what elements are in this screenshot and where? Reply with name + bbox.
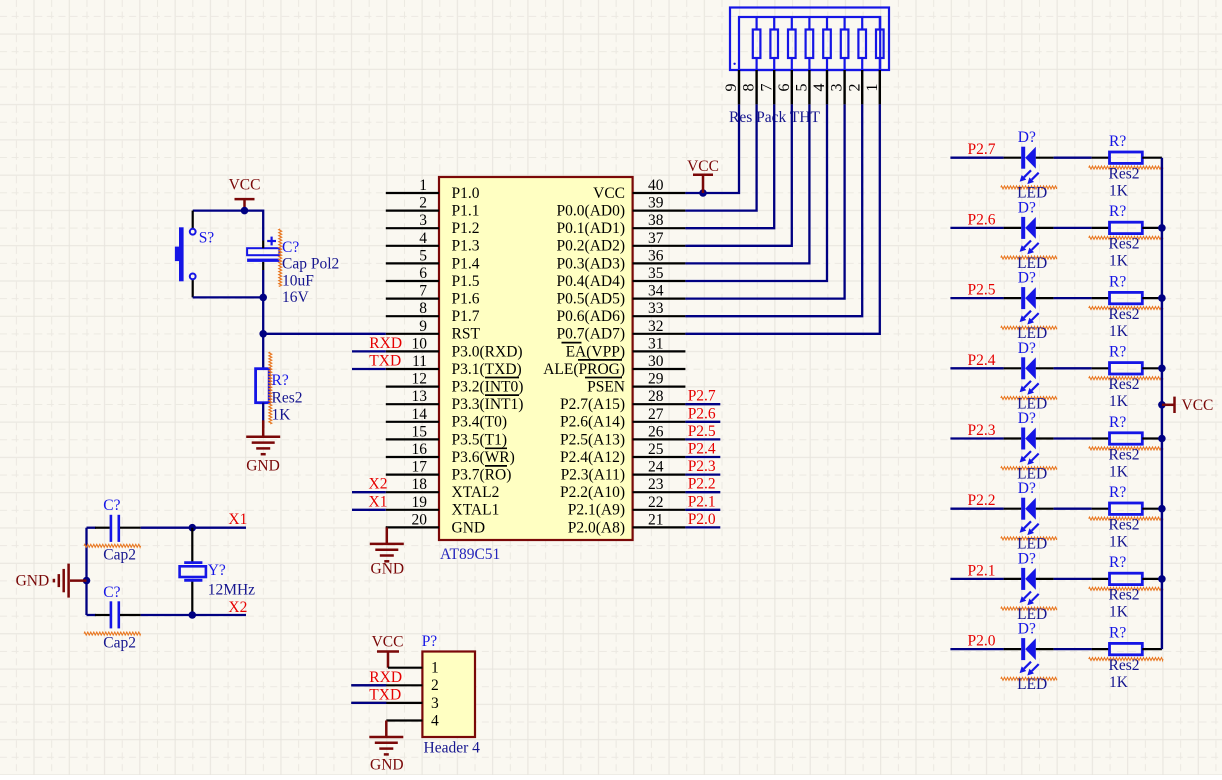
svg-text:C?: C?	[282, 239, 299, 256]
capacitor C3 right lead	[120, 614, 141, 616]
ERC marker zigzag under LED (row 1)	[1001, 186, 1057, 189]
svg-text:P2.4: P2.4	[688, 441, 716, 458]
resistor left lead (row 1)	[1092, 157, 1110, 159]
LED D2 left lead	[1004, 227, 1022, 229]
pin 31 lead (right)	[633, 350, 686, 352]
svg-text:4: 4	[419, 230, 427, 247]
LED D3 right lead	[1036, 297, 1054, 299]
LED D7 left lead	[1004, 578, 1022, 580]
pin 38 lead (right)	[633, 227, 686, 229]
svg-text:Cap2: Cap2	[103, 634, 136, 651]
svg-text:P3.6(WR): P3.6(WR)	[452, 449, 515, 466]
overline for EA (pin 31)	[562, 342, 582, 344]
header P1 body (Header 4)	[422, 652, 475, 738]
svg-text:R?: R?	[1109, 344, 1126, 361]
svg-text:P2.6: P2.6	[688, 405, 716, 422]
pin 19 lead (left)	[386, 509, 439, 511]
pin 36 lead (right)	[633, 262, 686, 264]
ERC marker zigzag under resistor (row 5)	[1089, 447, 1163, 450]
svg-text:P2.7: P2.7	[968, 141, 996, 158]
pin 6 lead (left)	[386, 280, 439, 282]
pin 1 lead (left)	[386, 192, 439, 194]
wire P2.7 net (IC)	[685, 403, 720, 405]
res pack pin 5 lead	[808, 70, 810, 104]
svg-text:10: 10	[412, 335, 428, 352]
svg-text:6: 6	[776, 84, 793, 92]
svg-text:P2.1: P2.1	[688, 493, 716, 510]
svg-text:38: 38	[648, 212, 664, 229]
ERC marker zigzag under resistor (row 7)	[1089, 587, 1163, 590]
svg-text:R?: R?	[1109, 203, 1126, 220]
LED D4 left lead	[1004, 367, 1022, 369]
svg-text:P0.4(AD4): P0.4(AD4)	[557, 273, 625, 290]
wire capacitor to bottom junction	[262, 270, 264, 297]
pin 9 lead (left)	[386, 333, 439, 335]
pin 28 lead (right)	[633, 403, 686, 405]
pin 29 lead (right)	[633, 386, 686, 388]
svg-text:Y?: Y?	[208, 562, 226, 579]
svg-text:2: 2	[419, 195, 427, 212]
wire header pin 4 to ground	[386, 719, 422, 721]
svg-text:28: 28	[648, 388, 664, 405]
svg-text:39: 39	[648, 195, 664, 212]
wire P2.2 to LED D6	[950, 508, 1003, 510]
overline for PROG (pin 30)	[578, 359, 622, 361]
pin 14 lead (left)	[386, 421, 439, 423]
junction bus row 4	[1158, 365, 1166, 373]
res pack pin number 1	[864, 84, 881, 92]
svg-text:P2.7(A15): P2.7(A15)	[560, 396, 625, 413]
res pack pin 6 lead	[791, 70, 793, 104]
resistor right lead to bus (row 4)	[1142, 367, 1162, 369]
pin 27 lead (right)	[633, 421, 686, 423]
svg-text:1K: 1K	[272, 407, 292, 424]
resistor R (Res2 1K) row 8	[1110, 643, 1143, 654]
svg-text:Res2: Res2	[272, 390, 303, 407]
resistor left lead (row 6)	[1092, 508, 1110, 510]
svg-text:12MHz: 12MHz	[208, 581, 255, 598]
svg-text:40: 40	[648, 177, 664, 194]
ERC marker zigzag under LED (row 6)	[1001, 537, 1057, 540]
svg-text:X1: X1	[369, 493, 388, 510]
svg-text:P1.3: P1.3	[452, 238, 480, 255]
svg-text:P1.4: P1.4	[452, 255, 480, 272]
wire LED to resistor (row 4)	[1054, 367, 1092, 369]
svg-text:35: 35	[648, 265, 664, 282]
pin 39 lead (right)	[633, 210, 686, 212]
overline for INT0 (pin 12)	[485, 377, 519, 379]
svg-text:25: 25	[648, 441, 664, 458]
svg-text:P0.2(AD2): P0.2(AD2)	[557, 238, 625, 255]
LED D5 right lead	[1036, 437, 1054, 439]
resistor pack element 1	[876, 30, 884, 59]
pin 15 lead (left)	[386, 438, 439, 440]
resistor pack element 4	[823, 30, 831, 59]
ground symbol (reset)	[262, 420, 265, 437]
wire IC pin 38 to res pack pin 7	[685, 104, 774, 228]
svg-text:P3.0(RXD): P3.0(RXD)	[452, 343, 523, 360]
wire resistor R1 to ground	[262, 403, 264, 428]
resistor R (Res2 1K) row 3	[1110, 292, 1143, 303]
svg-text:17: 17	[412, 459, 428, 476]
wire P2.5 to LED D3	[950, 297, 1003, 299]
pin 21 lead (right)	[633, 526, 686, 528]
crystal Y1 (12MHz) symbol	[184, 561, 202, 564]
LED D5 left lead	[1004, 437, 1022, 439]
svg-text:S?: S?	[199, 230, 215, 247]
pin 25 lead (right)	[633, 456, 686, 458]
ERC marker zigzag under LED (row 4)	[1001, 397, 1057, 400]
svg-text:D?: D?	[1018, 621, 1036, 638]
wire VCC to header pin 1	[387, 652, 390, 668]
ground symbol (crystal, pointing left)	[70, 579, 87, 582]
svg-text:R?: R?	[1109, 554, 1126, 571]
res pack pin 4 lead	[826, 70, 828, 104]
svg-text:LED: LED	[1017, 676, 1047, 693]
svg-text:13: 13	[412, 388, 428, 405]
svg-text:1K: 1K	[1109, 323, 1129, 340]
svg-text:23: 23	[648, 476, 664, 493]
svg-text:33: 33	[648, 300, 664, 317]
LED D8 symbol	[1021, 638, 1025, 660]
wire RST node down to resistor R1	[262, 334, 264, 369]
svg-text:2: 2	[431, 677, 439, 694]
svg-text:P3.7(RO): P3.7(RO)	[452, 467, 512, 484]
svg-text:2: 2	[846, 84, 863, 92]
pin 18 lead (left)	[386, 491, 439, 493]
wire LED to resistor (row 3)	[1054, 297, 1092, 299]
resistor right lead to bus (row 7)	[1142, 578, 1162, 580]
svg-text:34: 34	[648, 283, 664, 300]
svg-text:RXD: RXD	[369, 669, 402, 686]
wire P2.1 net (IC)	[685, 509, 720, 511]
resistor pack element 5	[806, 30, 814, 59]
res pack pin number 4	[811, 84, 828, 92]
wire IC pin 37 to res pack pin 6	[685, 104, 791, 245]
ERC marker zigzag under resistor (row 1)	[1089, 166, 1163, 169]
svg-text:11: 11	[412, 353, 427, 370]
svg-text:29: 29	[648, 371, 664, 388]
resistor pack element 8	[753, 30, 761, 59]
junction node below switch	[259, 294, 267, 302]
wire bottom cap left lead region	[87, 614, 97, 616]
svg-text:GND: GND	[16, 573, 50, 590]
LED D6 symbol	[1021, 498, 1025, 520]
svg-text:9: 9	[419, 318, 427, 335]
junction bus row 7	[1158, 575, 1166, 583]
svg-text:1: 1	[864, 84, 881, 92]
svg-text:5: 5	[794, 84, 811, 92]
svg-text:1K: 1K	[1109, 393, 1129, 410]
wire LED to resistor (row 1)	[1054, 157, 1092, 159]
LED D4 symbol	[1021, 357, 1025, 379]
wire LED to resistor (row 5)	[1054, 437, 1092, 439]
resistor R (Res2 1K) row 1	[1110, 152, 1143, 163]
svg-text:D?: D?	[1018, 199, 1036, 216]
LED D1 symbol	[1021, 147, 1025, 169]
resistor right lead to bus (row 2)	[1142, 227, 1162, 229]
resistor pack element 3	[841, 30, 849, 59]
pin 37 lead (right)	[633, 245, 686, 247]
svg-text:4: 4	[431, 712, 439, 729]
svg-text:P2.0(A8): P2.0(A8)	[568, 519, 625, 536]
svg-text:P0.3(AD3): P0.3(AD3)	[557, 255, 625, 272]
wire switch bottom to junction	[193, 296, 264, 298]
ERC marker zigzag under resistor (row 4)	[1089, 377, 1163, 380]
pin 16 lead (left)	[386, 456, 439, 458]
LED D4 right lead	[1036, 367, 1054, 369]
svg-text:1K: 1K	[1109, 604, 1129, 621]
wire P2.0 to LED D8	[950, 648, 1003, 650]
res pack pin 7 lead	[773, 70, 775, 104]
svg-text:VCC: VCC	[593, 185, 625, 202]
resistor left lead (row 2)	[1092, 227, 1110, 229]
res pack pin number 9	[723, 84, 740, 92]
svg-text:P2.2(A10): P2.2(A10)	[560, 484, 625, 501]
svg-text:P0.0(AD0): P0.0(AD0)	[557, 203, 625, 220]
pin 3 lead (left)	[386, 227, 439, 229]
wire LED to resistor (row 7)	[1054, 578, 1092, 580]
svg-text:36: 36	[648, 247, 664, 264]
junction VCC tap on bus	[1158, 401, 1166, 409]
res pack pin number 7	[758, 84, 775, 92]
svg-text:Res2: Res2	[1109, 587, 1140, 604]
wire VCC rail to switch and capacitor (top)	[193, 211, 264, 241]
wire IC pin 34 to res pack pin 3	[685, 104, 844, 298]
svg-text:1K: 1K	[1109, 534, 1129, 551]
wire P2.6 to LED D2	[950, 227, 1003, 229]
pin 4 lead (left)	[386, 245, 439, 247]
svg-text:6: 6	[419, 265, 427, 282]
svg-text:P0.6(AD6): P0.6(AD6)	[557, 308, 625, 325]
svg-text:P3.2(INT0): P3.2(INT0)	[452, 379, 524, 396]
svg-text:19: 19	[412, 494, 428, 511]
LED D7 right lead	[1036, 578, 1054, 580]
ground symbol (header)	[385, 721, 388, 738]
wire C3 to X2 node	[141, 614, 246, 616]
svg-text:P2.2: P2.2	[968, 492, 996, 509]
svg-text:GND: GND	[371, 561, 405, 578]
wire P2.6 net (IC)	[685, 421, 720, 423]
res pack pin 2 lead	[861, 70, 863, 104]
svg-text:Res2: Res2	[1109, 517, 1140, 534]
svg-text:30: 30	[648, 353, 664, 370]
resistor right lead to bus (row 6)	[1142, 508, 1162, 510]
svg-text:X1: X1	[228, 511, 247, 528]
svg-text:XTAL2: XTAL2	[452, 484, 500, 501]
svg-text:3: 3	[829, 84, 846, 92]
svg-text:R?: R?	[1109, 484, 1126, 501]
svg-text:GND: GND	[246, 458, 280, 475]
svg-text:18: 18	[412, 476, 428, 493]
wire P2.0 net (IC)	[685, 526, 720, 528]
res pack pin number 8	[741, 84, 758, 92]
svg-text:P?: P?	[422, 633, 438, 650]
pin 26 lead (right)	[633, 438, 686, 440]
wire P2.4 net (IC)	[685, 456, 720, 458]
svg-text:P2.3: P2.3	[688, 458, 716, 475]
svg-text:P2.0: P2.0	[688, 511, 716, 528]
svg-text:P2.5: P2.5	[968, 282, 996, 299]
wire TXD net (pin 11)	[352, 368, 386, 370]
pin 10 lead (left)	[386, 350, 439, 352]
ERC marker zigzag at capacitor C1	[279, 229, 282, 286]
svg-text:Res2: Res2	[1109, 306, 1140, 323]
pin 33 lead (right)	[633, 315, 686, 317]
svg-text:P0.5(AD5): P0.5(AD5)	[557, 291, 625, 308]
svg-text:37: 37	[648, 230, 664, 247]
resistor pack RP1 outer body	[730, 8, 889, 71]
svg-text:15: 15	[412, 423, 428, 440]
LED D5 symbol	[1021, 428, 1025, 450]
svg-text:P1.2: P1.2	[452, 220, 480, 237]
resistor left lead (row 3)	[1092, 297, 1110, 299]
pin 34 lead (right)	[633, 298, 686, 300]
wire X2 net (pin 18)	[352, 491, 386, 493]
IC U1 body (AT89C51 microcontroller)	[439, 177, 633, 540]
svg-text:P0.1(AD1): P0.1(AD1)	[557, 220, 625, 237]
svg-text:1K: 1K	[1109, 463, 1129, 480]
pin 12 lead (left)	[386, 386, 439, 388]
capacitor C1 top lead	[262, 241, 264, 249]
svg-text:P2.7: P2.7	[688, 388, 716, 405]
svg-text:9: 9	[723, 84, 740, 92]
pin 7 lead (left)	[386, 298, 439, 300]
svg-text:D?: D?	[1018, 129, 1036, 146]
svg-text:XTAL1: XTAL1	[452, 502, 500, 519]
wire LED to resistor (row 2)	[1054, 227, 1092, 229]
svg-text:14: 14	[412, 406, 428, 423]
wire P2.2 net (IC)	[685, 491, 720, 493]
LED D8 right lead	[1036, 648, 1054, 650]
svg-text:Cap2: Cap2	[103, 547, 136, 564]
LED D2 symbol	[1021, 217, 1025, 239]
overline for PSEN (pin 29)	[585, 377, 622, 379]
svg-text:Header 4: Header 4	[424, 740, 481, 757]
resistor R (Res2 1K) row 6	[1110, 503, 1143, 514]
svg-text:P2.1(A9): P2.1(A9)	[568, 502, 625, 519]
pin 5 lead (left)	[386, 262, 439, 264]
svg-text:1K: 1K	[1109, 674, 1129, 691]
svg-text:1K: 1K	[1109, 183, 1129, 200]
pin 24 lead (right)	[633, 474, 686, 476]
overline for WR (pin 16)	[485, 447, 507, 449]
svg-text:P2.1: P2.1	[968, 562, 996, 579]
resistor right lead to bus (row 3)	[1142, 297, 1162, 299]
svg-text:8: 8	[419, 300, 427, 317]
ERC marker zigzag under resistor (row 8)	[1089, 658, 1163, 661]
junction bus row 6	[1158, 505, 1166, 513]
pin 20 lead (left)	[386, 526, 439, 528]
power port VCC (reset circuit)	[243, 199, 246, 211]
svg-text:P1.7: P1.7	[452, 308, 480, 325]
junction X2 node	[189, 611, 197, 619]
svg-text:R?: R?	[272, 372, 289, 389]
svg-text:P2.5: P2.5	[688, 423, 716, 440]
pin 35 lead (right)	[633, 280, 686, 282]
svg-text:Res2: Res2	[1109, 376, 1140, 393]
svg-text:Cap Pol2: Cap Pol2	[282, 256, 339, 273]
svg-text:26: 26	[648, 423, 664, 440]
LED D1 left lead	[1004, 157, 1022, 159]
wire C2 to X1 node	[141, 527, 246, 529]
svg-text:1: 1	[419, 177, 427, 194]
wire RST node to IC pin 9	[263, 333, 386, 335]
wire P2.4 to LED D4	[950, 367, 1003, 369]
svg-text:Res2: Res2	[1109, 166, 1140, 183]
wire VCC bus (right vertical)	[1161, 158, 1163, 649]
svg-text:5: 5	[419, 247, 427, 264]
svg-text:12: 12	[412, 371, 428, 388]
wire P2.1 to LED D7	[950, 578, 1003, 580]
res pack pin 8 lead	[755, 70, 757, 104]
svg-text:P2.4(A12): P2.4(A12)	[560, 449, 625, 466]
pin 13 lead (left)	[386, 403, 439, 405]
ERC marker zigzag under LED (row 3)	[1001, 326, 1057, 329]
svg-text:P3.3(INT1): P3.3(INT1)	[452, 396, 524, 413]
pin 30 lead (right)	[633, 368, 686, 370]
svg-text:P2.3: P2.3	[968, 422, 996, 439]
svg-text:RST: RST	[452, 326, 481, 343]
junction ground tap (crystal)	[83, 577, 91, 585]
svg-text:P1.0: P1.0	[452, 185, 480, 202]
capacitor C1 (Cap Pol2) plates	[247, 248, 279, 255]
pin 22 lead (right)	[633, 509, 686, 511]
LED D1 right lead	[1036, 157, 1054, 159]
res pack pin number 6	[776, 84, 793, 92]
wire IC pin 36 to res pack pin 5	[685, 104, 809, 263]
svg-text:1: 1	[431, 660, 439, 677]
ERC marker zigzag (top cap)	[84, 544, 141, 547]
svg-text:C?: C?	[103, 584, 120, 601]
svg-text:7: 7	[758, 84, 775, 92]
capacitor C1 plus sign	[267, 240, 276, 242]
pin 8 lead (left)	[386, 315, 439, 317]
ERC marker zigzag (bottom cap)	[84, 632, 141, 635]
svg-text:31: 31	[648, 335, 664, 352]
svg-text:P1.5: P1.5	[452, 273, 480, 290]
junction bus row 3	[1158, 294, 1166, 302]
resistor right lead to bus (row 8)	[1142, 648, 1162, 650]
svg-text:4: 4	[811, 84, 828, 92]
svg-text:Res2: Res2	[1109, 446, 1140, 463]
svg-text:AT89C51: AT89C51	[440, 546, 500, 563]
junction VCC node	[241, 207, 249, 215]
junction RST node	[259, 330, 267, 338]
crystal Y1 leads	[191, 528, 193, 562]
svg-text:D?: D?	[1018, 270, 1036, 287]
wire TXD net to header pin 3	[351, 702, 422, 704]
ERC marker zigzag under resistor (row 3)	[1089, 307, 1163, 310]
overline for INT1 (pin 13)	[485, 394, 519, 396]
resistor pack RP1 inner bus rectangle	[739, 17, 880, 70]
ERC marker zigzag under LED (row 2)	[1001, 256, 1057, 259]
svg-text:Res2: Res2	[1109, 657, 1140, 674]
res pack pin 1 lead	[879, 70, 881, 104]
svg-text:27: 27	[648, 406, 664, 423]
wire down to RST node	[262, 297, 264, 333]
res pack pin 9 lead	[738, 70, 740, 104]
wire RXD net to header pin 2	[351, 684, 422, 686]
svg-text:TXD: TXD	[369, 353, 401, 370]
svg-text:24: 24	[648, 459, 664, 476]
svg-text:TXD: TXD	[369, 686, 401, 703]
svg-text:P3.4(T0): P3.4(T0)	[452, 414, 508, 431]
svg-text:R?: R?	[1109, 414, 1126, 431]
wire IC pin 32 to res pack pin 1	[685, 104, 879, 333]
resistor left lead (row 5)	[1092, 437, 1110, 439]
wire IC pin 40 to res pack pin 9	[685, 104, 739, 193]
